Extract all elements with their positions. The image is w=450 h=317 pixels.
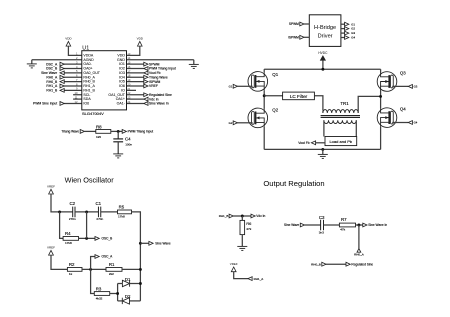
- transformer TR1 secondary winding: [324, 120, 356, 123]
- port OSC_B: [60, 67, 64, 71]
- wire Q1 source to mid rail: [263, 90, 265, 95]
- svg-text:21: 21: [127, 87, 130, 91]
- node C2-C1 junction: [85, 210, 88, 213]
- wire C4 to ground: [117, 142, 119, 154]
- wire GND pin 14 to ground: [127, 59, 194, 61]
- ground (C4): [113, 154, 123, 158]
- port Regulated Sine (pin 22): [144, 93, 148, 97]
- svg-text:RH0_A: RH0_A: [354, 253, 364, 257]
- wire ground stub GND: [193, 60, 195, 65]
- svg-text:VREF: VREF: [149, 84, 158, 88]
- svg-text:13: 13: [127, 52, 130, 56]
- port PWM Triang Input: [122, 130, 126, 134]
- wire pin 22 to port Regulated Sine: [127, 94, 144, 96]
- wire into D2 cathode: [118, 300, 123, 302]
- node R8-C4 junction: [117, 130, 120, 133]
- wire pin 6 to port RH0_A: [64, 76, 82, 78]
- svg-text:C3: C3: [319, 215, 325, 220]
- wire VREF to C2: [51, 194, 73, 212]
- svg-text:OSC_B: OSC_B: [102, 237, 113, 241]
- svg-text:LC Filter: LC Filter: [290, 94, 308, 99]
- port RH0_A: [357, 249, 361, 253]
- wire LC filter to TR1 primary: [314, 96, 323, 111]
- power symbol HVDC: [318, 51, 328, 69]
- svg-text:Output Regulation: Output Regulation: [263, 179, 324, 188]
- transformer TR1 core: [321, 116, 360, 118]
- svg-text:Q1: Q1: [272, 72, 278, 77]
- svg-text:C1: C1: [95, 201, 101, 206]
- svg-text:G4: G4: [351, 36, 355, 40]
- port G1: [233, 84, 237, 88]
- resistor R2: [67, 268, 82, 272]
- wire Q3 gate to G3: [392, 85, 408, 87]
- port G2 output: [345, 27, 349, 31]
- svg-text:VREF: VREF: [230, 262, 238, 266]
- power symbol VDD (right of U1): [127, 36, 144, 55]
- svg-text:Sine Wave: Sine Wave: [155, 242, 171, 246]
- wire pin 19 to port /SPWM: [127, 81, 144, 83]
- port G2: [233, 121, 237, 125]
- port G4: [408, 121, 412, 125]
- capacitor C3: [321, 220, 324, 231]
- svg-text:23: 23: [127, 96, 130, 100]
- svg-text:Vout Fb: Vout Fb: [298, 141, 310, 145]
- transformer TR1 primary winding: [323, 110, 358, 113]
- transistor Q3: [377, 72, 397, 92]
- wire node down to RH0_A: [358, 225, 360, 249]
- svg-text:G3: G3: [414, 85, 418, 89]
- svg-text:U1: U1: [82, 46, 89, 52]
- port Triang Wave: [80, 130, 84, 134]
- wire D1 cathode to right column: [130, 283, 141, 285]
- svg-text:R3: R3: [96, 286, 102, 291]
- wire R5 to right column: [132, 212, 141, 301]
- svg-text:18: 18: [127, 74, 130, 78]
- svg-text:Triang Wave: Triang Wave: [61, 130, 79, 134]
- svg-text:VREF: VREF: [47, 246, 55, 250]
- wire pin 20 to port VREF: [127, 85, 144, 87]
- svg-text:IO0: IO0: [83, 102, 89, 106]
- wire R4 to OSC_B port: [79, 237, 96, 239]
- svg-text:OSC_A: OSC_A: [102, 255, 114, 259]
- wire into D1 anode: [118, 283, 123, 285]
- wire node to C4: [117, 131, 119, 139]
- wire G2 to Q2 gate: [237, 122, 253, 124]
- wire SPWM to driver: [304, 23, 310, 25]
- node right bridge midpoint: [379, 95, 382, 98]
- LC Filter block: [283, 92, 315, 100]
- svg-text:HVDC: HVDC: [318, 51, 328, 55]
- wire Q4 gate to G4: [392, 122, 408, 124]
- svg-text:3n3: 3n3: [319, 231, 324, 235]
- ground (H-bridge): [318, 154, 328, 158]
- port PWM Triang Input (pin 16): [144, 67, 148, 71]
- svg-text:Wien Oscillator: Wien Oscillator: [65, 176, 115, 185]
- wire VREF to R2: [51, 255, 67, 269]
- svg-text:PWM Triang Input: PWM Triang Input: [128, 130, 154, 134]
- node R6 tap: [241, 215, 244, 218]
- svg-text:1k: 1k: [69, 272, 73, 276]
- power symbol VREF (Wien bottom): [47, 246, 55, 256]
- wire D2 anode to right column: [130, 300, 141, 302]
- port G1 output: [345, 22, 349, 26]
- port OSC_A: [60, 62, 64, 66]
- svg-text:G2: G2: [351, 27, 355, 31]
- wire driver output G3: [341, 32, 345, 34]
- svg-text:R6: R6: [246, 221, 252, 226]
- wire Q4 source to bottom rail: [380, 127, 382, 150]
- svg-text:Q2: Q2: [272, 108, 278, 113]
- port Vout Fb (pin 17): [144, 71, 148, 75]
- svg-text:SPWM: SPWM: [289, 22, 299, 26]
- wire R8 to PWM Triang Input port: [111, 130, 122, 132]
- wire Q2 drain to mid rail: [263, 96, 265, 109]
- svg-text:VREF: VREF: [47, 185, 55, 189]
- svg-text:Q3: Q3: [400, 70, 406, 75]
- svg-text:C2: C2: [69, 201, 75, 206]
- wire ground stub bottom rail: [322, 149, 324, 154]
- IC U1 SLG47004V: [82, 51, 127, 110]
- node R4 tap left: [58, 210, 61, 213]
- svg-text:Vdc In: Vdc In: [256, 214, 265, 218]
- port PWM Sine Input: [60, 102, 64, 106]
- transistor Q1: [248, 72, 268, 92]
- svg-text:19: 19: [127, 78, 130, 82]
- svg-text:G2: G2: [229, 121, 233, 125]
- wire pin 5 to port Sine Wave: [64, 72, 82, 74]
- svg-text:14: 14: [127, 56, 130, 60]
- wire pin 18 to port Triang Wave: [127, 76, 144, 78]
- svg-text:RH1_B: RH1_B: [219, 214, 229, 218]
- node bottom rail ground tap: [321, 148, 324, 151]
- svg-text:SLG47004V: SLG47004V: [82, 111, 104, 116]
- port Vout Fb: [311, 141, 315, 145]
- port Vdc In (pin 23): [144, 97, 148, 101]
- port G3: [408, 85, 412, 89]
- wire VREF to RH1_A port: [234, 272, 248, 279]
- wire Q4 drain to right midpoint: [380, 96, 382, 108]
- wire C3 to R7: [324, 224, 340, 226]
- port RH1_B: [229, 214, 233, 218]
- wire Q3 source to right midpoint: [380, 91, 382, 97]
- port RH0_B: [322, 262, 326, 266]
- resistor R1: [106, 268, 122, 272]
- svg-text:Sine Wave In: Sine Wave In: [149, 102, 169, 106]
- wire stub pin 21 IO: [127, 89, 137, 91]
- svg-text:H-Bridge: H-Bridge: [314, 25, 336, 31]
- svg-text:10: 10: [75, 91, 78, 95]
- wire HVDC top rail: [264, 68, 380, 70]
- power symbol VREF (Wien top): [47, 185, 55, 195]
- node left bridge midpoint: [263, 94, 266, 97]
- wire pin 24 to port Sine Wave In: [127, 102, 144, 104]
- U1 right pin numbers 13-24: [127, 52, 130, 104]
- resistor R8: [96, 130, 111, 134]
- wire primary right terminal to right midpoint: [358, 96, 381, 113]
- power symbol VREF (output reg): [230, 262, 238, 272]
- node R3-diode junction: [116, 292, 119, 295]
- node R4-C2C1 junction: [85, 237, 88, 240]
- diode D1: [122, 280, 129, 286]
- wire Vout Fb to load: [315, 142, 325, 144]
- svg-text:17k8: 17k8: [65, 241, 72, 245]
- wire stub pin 11 SDA: [73, 98, 82, 100]
- svg-text:R8: R8: [96, 124, 102, 129]
- wire diode pair left rail: [117, 284, 119, 301]
- port Sine Wave: [60, 71, 64, 75]
- resistor R3: [94, 292, 109, 296]
- wire RH1_B to Vdc In: [233, 215, 251, 217]
- svg-text:Load and Pb: Load and Pb: [329, 139, 352, 144]
- svg-text:24: 24: [127, 100, 130, 104]
- wire Triang Wave to R8: [84, 130, 95, 132]
- svg-text:100n: 100n: [125, 142, 132, 146]
- port VREF (pin 20): [144, 84, 148, 88]
- wire pin 4 to port OSC_B: [64, 68, 82, 70]
- resistor R7: [339, 223, 355, 227]
- capacitor C4: [113, 139, 123, 142]
- svg-text:17: 17: [127, 69, 130, 73]
- svg-text:/SPWM: /SPWM: [288, 36, 299, 40]
- wire pin 7 to port RH0_B: [64, 81, 82, 83]
- svg-text:RH1_A: RH1_A: [254, 277, 264, 281]
- svg-text:Driver: Driver: [318, 34, 333, 40]
- svg-text:47k: 47k: [340, 227, 345, 231]
- svg-text:PWM Sine Input: PWM Sine Input: [33, 102, 57, 106]
- wire driver output G4: [341, 37, 345, 39]
- svg-text:G1: G1: [229, 85, 233, 89]
- wire R7 to Sine Wave In: [356, 224, 363, 226]
- svg-text:Sine Wave In: Sine Wave In: [368, 223, 387, 227]
- port Vdc In: [251, 214, 255, 218]
- svg-text:RH1_B: RH1_B: [46, 89, 58, 93]
- wire pin 23 to port Vdc In: [127, 98, 144, 100]
- port SPWM (pin 15): [144, 62, 148, 66]
- svg-text:270n: 270n: [69, 217, 76, 221]
- wire to Sine Wave port: [140, 242, 149, 244]
- capacitor C1: [98, 207, 100, 218]
- svg-text:16: 16: [127, 65, 130, 69]
- wire C1 to R5: [101, 211, 118, 213]
- svg-text:Q4: Q4: [400, 106, 406, 111]
- wire /SPWM to driver: [304, 36, 310, 38]
- wire AGND pin 2 to ground: [32, 59, 82, 61]
- power symbol VDD (left of U1): [65, 36, 82, 55]
- wire primary left terminal: [322, 111, 324, 113]
- svg-text:47k: 47k: [246, 227, 251, 231]
- port RH1_A: [248, 277, 252, 281]
- wire pin 16 to port PWM Triang Input: [127, 68, 144, 70]
- U1 right pin names: [108, 54, 125, 106]
- wire pin 15 to port SPWM: [127, 63, 144, 65]
- wire pin 8 to port RH1_A: [64, 85, 82, 87]
- svg-text:R2: R2: [69, 262, 75, 267]
- wire RH0_B to Regulated Sine: [326, 263, 346, 265]
- svg-text:D2: D2: [125, 294, 131, 299]
- port RH1_B: [60, 88, 64, 92]
- wire R6 to ground: [241, 235, 243, 247]
- resistor R5: [118, 210, 132, 214]
- wire Q3 drain to rail: [380, 69, 382, 72]
- node Sine Wave tap: [139, 242, 142, 245]
- wire R2 to R1: [82, 268, 106, 270]
- port RH0_A: [60, 75, 64, 79]
- node RH0_A tap: [357, 224, 360, 227]
- transistor Q2: [248, 108, 268, 128]
- svg-text:G3: G3: [351, 31, 355, 35]
- svg-text:OA1-: OA1-: [117, 102, 126, 106]
- svg-text:VDD: VDD: [65, 36, 72, 40]
- H-Bridge Driver block: [309, 15, 341, 47]
- svg-text:TR1: TR1: [340, 101, 349, 106]
- wire pin 9 to port RH1_B: [64, 89, 82, 91]
- port Sine Wave (source): [300, 223, 304, 227]
- wire Q2 source to bottom rail: [263, 127, 265, 149]
- node D1 right junction: [139, 282, 142, 285]
- wire down to R3: [91, 269, 95, 293]
- node HVDC rail: [321, 68, 324, 71]
- svg-text:G4: G4: [414, 121, 418, 125]
- port Sine Wave In (pin 24): [144, 102, 148, 106]
- svg-text:R1: R1: [109, 262, 115, 267]
- wire down to R4: [60, 212, 64, 239]
- svg-text:12: 12: [75, 100, 78, 104]
- wire secondary right terminal: [355, 120, 357, 136]
- port /SPWM input: [300, 35, 304, 39]
- ground (AGND): [27, 64, 37, 68]
- port SPWM input: [300, 22, 304, 26]
- wire node to R6: [241, 216, 243, 220]
- svg-text:15: 15: [127, 61, 130, 65]
- diode D2: [122, 298, 129, 304]
- resistor R4: [63, 237, 78, 241]
- svg-text:VDD: VDD: [137, 36, 144, 40]
- ground (GND): [189, 64, 199, 68]
- port RH1_A: [60, 84, 64, 88]
- svg-text:Regulated Sine: Regulated Sine: [351, 262, 373, 266]
- capacitor C2: [73, 207, 75, 218]
- wire R3 to diode pair: [110, 293, 118, 295]
- wire G1 to Q1 gate: [237, 85, 253, 87]
- resistor R6: [240, 220, 245, 234]
- node R1 right junction: [139, 268, 142, 271]
- wire Q1 drain to rail: [263, 69, 265, 72]
- svg-text:RH0_B: RH0_B: [311, 262, 321, 266]
- wire up to OSC_A port: [91, 257, 95, 270]
- wire driver output G2: [341, 28, 345, 30]
- port Triang Wave (pin 18): [144, 75, 148, 79]
- wire stub pin 10 SCL: [73, 94, 82, 96]
- transistor Q4: [377, 108, 397, 128]
- port G3 output: [345, 31, 349, 35]
- wire Sine Wave to C3: [305, 224, 321, 226]
- svg-text:R5: R5: [119, 205, 125, 210]
- port OSC_B: [95, 237, 99, 241]
- wire pin 12 to port PWM Sine Input: [64, 102, 82, 104]
- U1 left pin names: [83, 54, 100, 106]
- port /SPWM (pin 19): [144, 80, 148, 84]
- wire bottom rail: [264, 148, 380, 150]
- port Regulated Sine: [346, 262, 350, 266]
- svg-text:Sine Wave: Sine Wave: [284, 223, 300, 227]
- svg-text:22: 22: [127, 91, 130, 95]
- port Sine Wave: [149, 241, 153, 245]
- U1 left pin numbers 1-12: [75, 52, 79, 104]
- svg-text:C4: C4: [125, 137, 131, 142]
- wire ground stub AGND: [31, 60, 33, 64]
- svg-text:4k32: 4k32: [96, 296, 103, 300]
- ground (R6): [237, 246, 247, 250]
- svg-text:270n: 270n: [96, 217, 103, 221]
- port Sine Wave In: [363, 223, 367, 227]
- port OSC_A: [95, 255, 99, 259]
- svg-text:D1: D1: [125, 277, 131, 282]
- wire driver output G1: [341, 23, 345, 25]
- wire midpoint to LC filter: [264, 95, 282, 97]
- svg-text:G1: G1: [351, 22, 355, 26]
- port G4 output: [345, 36, 349, 40]
- wire C2 to C1: [75, 211, 99, 213]
- svg-text:R4: R4: [65, 231, 71, 236]
- svg-text:R7: R7: [341, 217, 347, 222]
- wire C2-C1 node down to R4 node: [86, 212, 88, 239]
- wire pin 3 to port OSC_A: [64, 63, 82, 65]
- node OSC_A tap: [89, 268, 92, 271]
- svg-text:2k2: 2k2: [109, 272, 114, 276]
- svg-text:1k5: 1k5: [96, 135, 101, 139]
- port RH0_B: [60, 80, 64, 84]
- wire R1 to right column: [122, 268, 140, 270]
- svg-text:17k8: 17k8: [118, 215, 125, 219]
- Load and Pb block: [325, 137, 357, 146]
- wire pin 17 to port Vout Fb: [127, 72, 144, 74]
- svg-text:20: 20: [127, 82, 130, 86]
- wire secondary left terminal: [323, 120, 325, 136]
